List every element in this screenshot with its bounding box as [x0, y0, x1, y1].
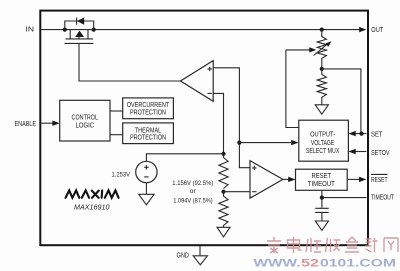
svg-text:CONTROL: CONTROL	[72, 115, 99, 122]
watermark chinese characters	[267, 237, 398, 253]
svg-text:SETOV: SETOV	[371, 148, 390, 157]
wire: RESET output to pin	[347, 178, 359, 180]
wire: tap to comparator - input	[224, 191, 251, 193]
wire: error amp + input to feedback net	[213, 68, 250, 168]
svg-text:GND: GND	[177, 252, 190, 259]
ground arrow under reference	[139, 194, 154, 205]
box: CONTROL LOGIC	[60, 100, 110, 141]
wire: gate lead to error-amp output	[79, 43, 181, 81]
op-amp U1 error amplifier (points left)	[181, 61, 214, 102]
svg-text:52: 52	[301, 258, 319, 270]
svg-text:RESET: RESET	[312, 173, 332, 180]
adjustment arrow diagonal	[314, 44, 328, 56]
svg-text:RESET: RESET	[371, 175, 388, 184]
node: feedback branch	[237, 141, 241, 145]
svg-text:TIMEOUT: TIMEOUT	[371, 192, 394, 201]
wire: wiper to MUX	[286, 50, 299, 128]
ground arrow GND pin	[193, 256, 207, 265]
resistor R1 (output divider, adjustable)	[317, 30, 326, 69]
wire: control logic to overcurrent	[110, 110, 123, 112]
outer block border	[40, 11, 368, 246]
node: reset threshold tap	[221, 190, 225, 194]
svg-text:SET: SET	[371, 129, 383, 138]
wire: body-diode loop	[65, 21, 94, 30]
svg-text:1.156V (92.5%): 1.156V (92.5%)	[172, 180, 213, 187]
svg-text:PROTECTION: PROTECTION	[130, 134, 166, 141]
node: reference join	[221, 152, 225, 156]
svg-text:MAX16910: MAX16910	[74, 204, 110, 211]
svg-text:LOGIC: LOGIC	[76, 123, 95, 130]
box: THERMAL PROTECTION	[123, 123, 174, 144]
comparator U2 reset comparator	[250, 161, 283, 199]
MAXIM logo	[66, 190, 119, 197]
node: diode left junction	[63, 28, 67, 32]
diode D1 (body diode, cathode bar left, triangle pointing left)	[76, 18, 78, 25]
resistor R4 (reference divider bottom)	[219, 192, 228, 228]
wire: reference to divider	[146, 154, 223, 162]
voltage reference 1.253V source	[136, 161, 157, 182]
wire: SET pin into MUX	[356, 133, 367, 135]
svg-text:1.253V: 1.253V	[112, 171, 131, 178]
wire: comparator output to reset timeout	[283, 178, 289, 180]
node: timeout	[320, 196, 324, 200]
box: OVERCURRENT PROTECTION	[123, 98, 174, 119]
svg-text:IN: IN	[26, 24, 35, 33]
svg-text:WWW.: WWW.	[254, 258, 301, 270]
resistor R2 (output divider bottom)	[317, 69, 326, 105]
svg-text:OUT: OUT	[371, 25, 383, 34]
wire: ENABLE into control logic	[41, 122, 53, 124]
wire: feedback into MUX with arrow	[239, 142, 291, 144]
svg-text:OUTPUT-: OUTPUT-	[310, 132, 335, 139]
svg-text:ENABLE: ENABLE	[15, 119, 37, 128]
ground arrow under reference divider	[217, 227, 230, 237]
box: OUTPUT-VOLTAGE SELECT MUX	[299, 120, 349, 161]
wire: control logic to thermal	[110, 134, 123, 136]
svg-text:1.094V (87.5%): 1.094V (87.5%)	[173, 197, 213, 204]
arrow into OUT pin	[359, 27, 366, 32]
transistor Q1 PMOS pass element	[70, 30, 88, 39]
wire: TIMEOUT net	[322, 190, 367, 197]
svg-text:TIMEOUT: TIMEOUT	[308, 181, 336, 188]
svg-text:OVERCURRENT: OVERCURRENT	[127, 102, 170, 109]
ground arrow under capacitor	[315, 221, 328, 230]
wire: error amp - input to reference net	[213, 93, 223, 157]
node: diode right junction	[92, 28, 96, 32]
node: SET junction	[359, 132, 363, 136]
box: RESET TIMEOUT	[296, 169, 348, 190]
svg-text:0101.COM: 0101.COM	[320, 258, 396, 270]
svg-text:VOLTAGE: VOLTAGE	[311, 140, 335, 147]
wire: main IN-OUT rail	[41, 29, 360, 31]
resistor R3 (reference divider top)	[219, 158, 228, 189]
GND pin stem	[199, 246, 201, 256]
node: OUT divider top	[320, 28, 324, 32]
node: output divider tap	[320, 67, 324, 71]
wire: SETOV pin into MUX	[356, 151, 367, 153]
capacitor C1 timeout	[321, 198, 323, 221]
wiper arrow into R1	[286, 49, 310, 51]
svg-text:or: or	[190, 188, 197, 195]
wire: divider tap to SET line	[322, 69, 361, 134]
ground arrow under output divider	[315, 105, 328, 114]
svg-text:PROTECTION: PROTECTION	[130, 109, 166, 116]
svg-text:SELECT MUX: SELECT MUX	[306, 148, 340, 155]
